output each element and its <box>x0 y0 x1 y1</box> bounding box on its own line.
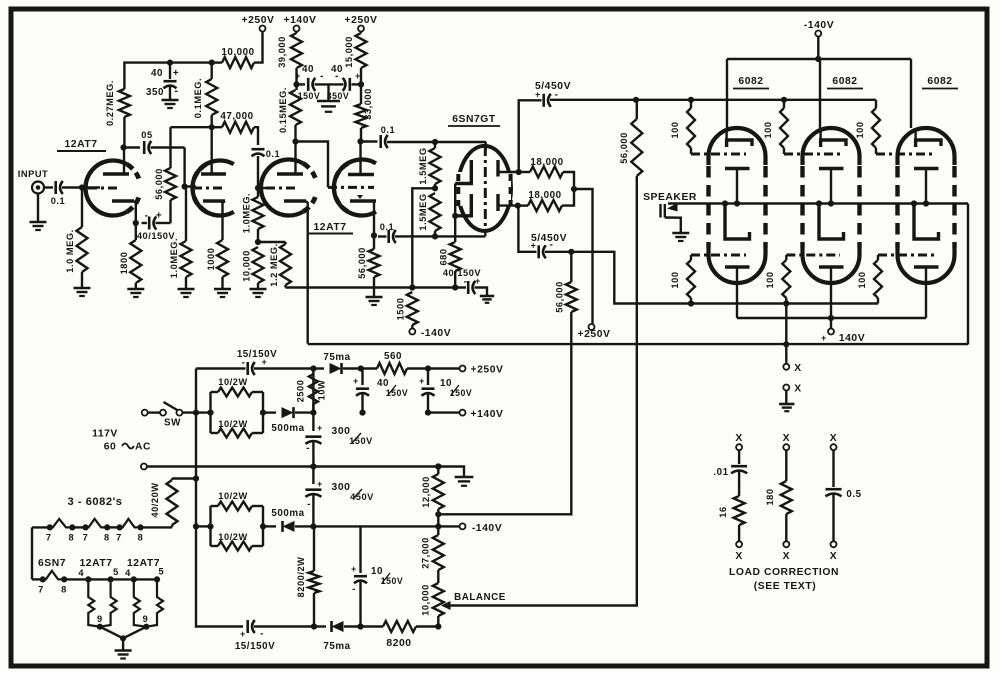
resistor 56,000 plate-cathode V1 <box>165 168 176 200</box>
resistor 10/2W upper no.1 <box>211 391 219 393</box>
capacitor 0.1 coupling V2b plate to driver <box>361 140 378 142</box>
resistor 0.1MEG plate load V1b <box>210 63 212 79</box>
svg-text:16: 16 <box>718 506 728 517</box>
svg-text:12AT7: 12AT7 <box>64 139 97 150</box>
upper plate 6082 no.1 <box>727 140 752 147</box>
svg-text:+: + <box>156 211 162 222</box>
resistor 8200/2W <box>313 526 315 571</box>
svg-text:-: - <box>174 85 178 97</box>
lower cathode bar 6082 no.1 <box>725 265 750 269</box>
plate lead V1a <box>123 148 125 175</box>
terminal +250V no.1 <box>260 26 266 32</box>
svg-text:9: 9 <box>143 614 149 624</box>
svg-text:10/2W: 10/2W <box>218 491 247 501</box>
cathode bar 6SN7 lower <box>455 194 471 216</box>
svg-text:75ma: 75ma <box>323 641 350 652</box>
svg-text:10/2W: 10/2W <box>218 377 247 387</box>
svg-text:1.0MEG.: 1.0MEG. <box>242 193 252 233</box>
svg-text:3 - 6082's: 3 - 6082's <box>67 496 122 508</box>
wire to 40/20W <box>172 477 196 479</box>
resistor 680 cathode bias <box>450 242 461 271</box>
svg-text:10,000: 10,000 <box>242 250 252 282</box>
capacitor 5/450V lower coupling <box>518 206 537 252</box>
wire cap to ground <box>169 86 171 100</box>
wire cap to AC neutral <box>312 440 314 467</box>
resistor 10/2W lower no.1 <box>211 432 219 434</box>
svg-text:+: + <box>240 629 246 639</box>
upper plate lead 6082 no.1 <box>725 128 727 140</box>
svg-text:(SEE TEXT): (SEE TEXT) <box>754 581 816 592</box>
cathode lead V2b <box>373 201 375 236</box>
wire to -140V PSU terminal <box>438 525 459 527</box>
node top row left <box>310 365 316 371</box>
upper plate 6082 no.3 <box>916 140 941 147</box>
-140V plate rail <box>727 58 911 60</box>
wire jack to C 0.1 <box>44 186 53 188</box>
plate lead 6SN7 lower <box>498 204 518 206</box>
svg-text:75ma: 75ma <box>323 352 350 363</box>
triode V1b 12AT7 envelope <box>193 161 234 216</box>
6082 output tube no.3 envelope <box>898 128 955 283</box>
svg-text:8: 8 <box>138 533 144 543</box>
cathode bar 6SN7 upper <box>455 160 471 184</box>
node -140V entry <box>815 56 821 62</box>
svg-text:8: 8 <box>61 585 67 595</box>
svg-text:X: X <box>735 433 742 444</box>
node bridge 1 out <box>260 410 266 416</box>
AC vertical wire <box>195 413 197 527</box>
wire cap to R 56,000 bottom <box>156 222 171 224</box>
wire R 56,000 to ground <box>373 277 375 297</box>
svg-text:2500: 2500 <box>296 380 306 403</box>
cathode bar V1b <box>203 199 225 203</box>
balance arrow into pot <box>441 601 451 610</box>
wire plate lead no.3 <box>910 59 912 128</box>
cathode lead V2a down to feedback line <box>306 201 308 344</box>
wire 56,000 bottom down to divider line <box>438 312 571 514</box>
svg-text:10,000: 10,000 <box>221 47 254 58</box>
resistor 10,000 B+ dropping <box>212 61 222 63</box>
wire plate lead no.1 <box>726 59 728 128</box>
+140V cathode rail <box>737 317 926 319</box>
upper cathode lead 6082 no.3 <box>925 169 927 204</box>
ground R 1000 <box>214 288 231 291</box>
lower grid dash line no.2 <box>786 254 840 257</box>
triode V1a 12AT7 envelope <box>86 161 127 216</box>
resistor 1.0MEG grid V2a <box>257 188 259 197</box>
capacitor 0.1 coupling to V2a <box>252 148 265 151</box>
svg-text:56,000: 56,000 <box>357 247 367 279</box>
cathode lead V1a <box>134 201 136 223</box>
svg-text:0.27MEG.: 0.27MEG. <box>105 80 115 126</box>
svg-text:8200: 8200 <box>386 638 411 649</box>
terminal X lower <box>783 385 789 391</box>
svg-text:X: X <box>735 551 742 562</box>
svg-text:100: 100 <box>855 121 865 138</box>
node 40/20W tap <box>193 475 199 481</box>
node doubler mid 1 <box>310 410 316 416</box>
wire X to ground <box>785 391 787 405</box>
svg-text:300: 300 <box>332 482 351 493</box>
svg-text:350V: 350V <box>327 91 350 101</box>
plate lead 6SN7 upper <box>498 171 519 173</box>
capacitor 0.1 coupling cathode V2b to driver bottom <box>378 235 387 237</box>
ground R 10,000 <box>250 288 267 291</box>
capacitor .05 coupling V1a-V1b <box>143 141 146 154</box>
capacitor 5/450V upper coupling <box>519 100 542 172</box>
svg-text:-: - <box>145 211 149 222</box>
node pot bottom <box>435 623 441 629</box>
upper cathode bar 6082 no.2 <box>819 167 844 171</box>
grid dash line V1b <box>193 187 226 190</box>
wire cap to +140 row <box>361 394 363 413</box>
speaker jack symbol <box>659 204 661 218</box>
svg-text:+250V: +250V <box>345 15 378 26</box>
heater row 2 <box>32 578 43 580</box>
wire lower 100 rail to X link <box>785 304 787 345</box>
svg-text:-: - <box>352 584 356 595</box>
node +140V PSU <box>425 410 431 416</box>
svg-text:6SN7GT: 6SN7GT <box>452 114 496 125</box>
lower plate 6082 no.3 <box>914 204 939 240</box>
wire R 1.2MEG to bias rail <box>284 285 286 288</box>
node +250V PSU <box>425 365 431 371</box>
wire 15,000 to +250V terminal no.2 <box>360 32 362 34</box>
lower cathode bar 6082 no.3 <box>914 265 939 269</box>
AC input terminal line 1 <box>142 410 148 416</box>
terminal X bottom col 2 <box>783 541 789 547</box>
cathode bar V2b <box>350 199 376 203</box>
svg-text:40/20W: 40/20W <box>150 482 160 517</box>
node speaker rail no.2b <box>828 200 834 206</box>
resistor 2500 10W <box>312 374 314 413</box>
svg-text:60: 60 <box>104 442 117 453</box>
wire heater row 1 to row 2 <box>31 527 33 579</box>
wire ground hook <box>438 467 464 478</box>
node plate upper <box>516 169 522 175</box>
terminal +140V <box>294 26 300 32</box>
wire to ground <box>185 277 187 289</box>
node cathode join <box>452 213 458 219</box>
cathode arrow mark V2b <box>357 195 363 199</box>
capacitor 300/450V doubler <box>312 467 314 485</box>
svg-text:+250V: +250V <box>578 329 611 340</box>
wire to X bottom <box>738 525 740 541</box>
svg-text:450V: 450V <box>350 492 374 502</box>
resistor 0.15MEG plate load V2a <box>294 125 296 142</box>
svg-text:15/150V: 15/150V <box>235 641 275 652</box>
wire cap pair center <box>315 83 344 85</box>
plate bar V1b <box>201 172 226 176</box>
svg-text:0.1: 0.1 <box>381 125 396 135</box>
wire divider node to R 1.2MEG <box>258 241 286 243</box>
resistor 100 upper grid no.2 <box>781 97 787 103</box>
wire grid top entry <box>485 142 487 150</box>
divider line from 56,000 <box>435 511 441 517</box>
node 1.5MEG bottom <box>432 233 438 239</box>
ground speaker <box>672 232 689 235</box>
node grid V2a <box>255 185 261 191</box>
node bias rail to 1500 <box>409 284 415 290</box>
node feedback X link <box>783 341 789 347</box>
upper grid dash line no.2 <box>783 148 785 154</box>
svg-text:-140V: -140V <box>421 328 451 339</box>
lower plate 6082 no.2 <box>819 204 844 240</box>
svg-text:+: + <box>262 357 268 367</box>
svg-text:10/2W: 10/2W <box>218 419 247 429</box>
wire 39,000 to +140V terminal <box>295 32 297 34</box>
capacitor 40/150V PSU filter <box>361 369 363 386</box>
svg-text:12,000: 12,000 <box>421 476 431 508</box>
svg-text:27,000: 27,000 <box>421 537 431 569</box>
node grid V1b <box>182 183 188 189</box>
upper grid dash line no.3 <box>875 148 877 154</box>
resistor 1.5MEG upper <box>430 148 441 184</box>
wire R 10,000 to +250V terminal <box>254 32 263 63</box>
wire 1.5MEG mid node to bias rail <box>412 188 435 287</box>
node cathode V1a <box>133 220 139 226</box>
svg-text:-: - <box>242 358 246 369</box>
upper cathode bar 6082 no.3 <box>914 167 939 171</box>
svg-text:AC: AC <box>135 442 151 453</box>
switch lever <box>164 402 179 411</box>
wire plate lead V1b <box>210 127 212 174</box>
svg-text:680: 680 <box>439 248 449 265</box>
svg-text:12AT7: 12AT7 <box>79 558 112 569</box>
node +250V feed <box>571 186 577 192</box>
wire plate lead no.2 <box>819 59 821 128</box>
resistor 56,000 cathode V2b <box>373 236 375 250</box>
svg-text:4: 4 <box>78 568 84 578</box>
node cathode follower output <box>371 232 377 238</box>
node speaker rail no.1b <box>734 200 740 206</box>
node lower drive <box>568 249 574 255</box>
svg-text:-: - <box>550 240 554 251</box>
resistor 56,000 lower drive <box>570 252 572 282</box>
node grid V1a <box>79 184 85 190</box>
node -140V feed <box>310 523 316 529</box>
wire R 1800 to ground <box>135 283 137 289</box>
wire cathode node to R 1800 <box>135 223 137 240</box>
plate bar V2a <box>277 172 303 176</box>
svg-text:+: + <box>531 241 537 251</box>
terminal X upper <box>785 344 787 364</box>
node 680 bottom on bias rail <box>452 284 458 290</box>
svg-text:+140V: +140V <box>471 409 504 420</box>
grid dash line 6SN7 center <box>484 146 487 230</box>
capacitor 0.5 load correction <box>832 450 834 487</box>
AC sine symbol <box>122 444 134 449</box>
svg-text:-: - <box>307 499 311 510</box>
svg-text:100: 100 <box>857 271 867 288</box>
svg-text:9: 9 <box>97 614 103 624</box>
resistor 1.5MEG lower <box>430 193 441 231</box>
node plate V2b <box>357 138 363 144</box>
upper cathode lead 6082 no.1 <box>736 169 738 204</box>
ground bias bypass <box>480 295 494 298</box>
6SN7GT envelope <box>458 146 511 231</box>
svg-text:300: 300 <box>332 426 351 437</box>
svg-text:0.1MEG.: 0.1MEG. <box>193 78 203 118</box>
node plate V1a <box>120 144 126 150</box>
node decoupling cap 40/350V <box>167 60 173 66</box>
node ground jumper top <box>435 463 441 469</box>
svg-text:560: 560 <box>384 351 402 362</box>
wire C .05 to grid V1b <box>151 146 185 148</box>
grid dash line V2a <box>266 187 297 190</box>
upper plate 6082 no.2 <box>821 140 846 147</box>
svg-text:10,000: 10,000 <box>421 584 431 616</box>
speaker arrow <box>667 203 678 212</box>
wire C 0.1 to 6SN7 grid top <box>387 141 486 143</box>
resistor 10/2W upper no.2 <box>211 505 219 507</box>
wire top row corner <box>195 369 197 413</box>
wire plate node to C .05 <box>124 146 141 148</box>
svg-text:+: + <box>475 276 481 286</box>
svg-text:+: + <box>317 423 323 433</box>
plate bar 6SN7 lower <box>496 194 499 211</box>
wire -140V terminal <box>817 37 819 60</box>
svg-text:1000: 1000 <box>206 248 216 271</box>
upper plate lead 6082 no.2 <box>819 128 821 140</box>
lower cathode lead 6082 no.2 <box>830 267 832 318</box>
resistor 10,000 divider to ground <box>253 247 264 283</box>
top row +250 feed <box>196 367 246 369</box>
bias rail horizontal <box>286 286 467 288</box>
upper cathode bar 6082 no.1 <box>725 167 750 171</box>
resistor 10/2W lower no.2 <box>211 545 219 547</box>
plate lead V2b <box>359 142 361 175</box>
node AC vertical <box>193 410 199 416</box>
node speaker rail no.3a <box>911 200 917 206</box>
resistor 18,000 upper plate load <box>519 171 530 173</box>
wire SW to bridge 1 <box>182 411 210 413</box>
wire input jack to ground <box>37 194 39 223</box>
lower cathode lead 6082 no.1 <box>736 267 738 318</box>
wire speaker jack to ground <box>665 218 681 234</box>
svg-text:40: 40 <box>151 68 163 79</box>
svg-text:8: 8 <box>104 533 110 543</box>
svg-text:1.0MEG.: 1.0MEG. <box>169 238 179 278</box>
svg-text:+140V: +140V <box>284 15 317 26</box>
feedback line bottom <box>308 343 968 345</box>
svg-text:40: 40 <box>302 64 314 75</box>
svg-text:-140V: -140V <box>472 523 502 534</box>
svg-text:56,000: 56,000 <box>555 281 565 313</box>
svg-text:18,000: 18,000 <box>528 190 561 201</box>
svg-text:.01: .01 <box>713 467 728 478</box>
resistor 15,000 from +250V <box>356 33 367 68</box>
svg-text:+: + <box>173 68 179 79</box>
svg-text:5: 5 <box>113 567 119 577</box>
svg-text:7: 7 <box>116 533 122 543</box>
svg-text:12AT7: 12AT7 <box>127 558 160 569</box>
lower grid dash line no.1 <box>691 254 746 257</box>
resistor 1500 to -140V <box>407 292 418 325</box>
wire grid node down to R 1.0MEG <box>81 188 83 228</box>
wire 0.27MEG top to B+ rail <box>124 63 211 89</box>
wire divider node down <box>437 514 439 526</box>
svg-text:8200/2W: 8200/2W <box>296 557 306 598</box>
svg-text:500ma: 500ma <box>271 423 304 434</box>
capacitor 300/150V doubler <box>312 413 314 431</box>
wire 5/450V lower to node <box>545 251 571 253</box>
resistor 1.0 MEG grid return V1a <box>77 227 88 272</box>
node plate V1b <box>209 124 215 130</box>
svg-text:10/2W: 10/2W <box>218 532 247 542</box>
svg-text:6082: 6082 <box>738 76 763 87</box>
resistor 1000 cathode V1b <box>217 240 228 277</box>
triode V2b 12AT7 envelope <box>334 160 376 216</box>
lower cathode lead 6082 no.3 <box>925 267 927 318</box>
svg-text:100: 100 <box>670 271 680 288</box>
capacitor 40/350V decoupling pair right <box>348 78 351 91</box>
node bridge 2 out <box>260 523 266 529</box>
lower grid dash line no.3 <box>878 254 935 257</box>
wire 40/20W to heater string <box>171 525 173 527</box>
svg-text:47,000: 47,000 <box>220 111 253 122</box>
svg-text:+: + <box>821 333 827 343</box>
svg-text:+: + <box>535 90 541 100</box>
diode 75ma no.1 <box>313 367 324 369</box>
svg-text:+: + <box>351 564 357 574</box>
resistor 180 load correction <box>785 450 787 481</box>
resistor 560 <box>361 367 377 369</box>
bridge rectifier 2 10/2W pair <box>193 523 199 529</box>
svg-text:10W: 10W <box>317 380 327 401</box>
upper cathode lead 6082 no.2 <box>830 169 832 204</box>
svg-text:-: - <box>306 443 310 454</box>
node divider V2a <box>255 239 261 245</box>
heater center tap wires <box>100 627 123 639</box>
bottom PSU row <box>196 526 243 626</box>
svg-text:-: - <box>260 629 264 640</box>
wire R 1000 to ground <box>221 277 223 289</box>
svg-text:X: X <box>794 384 801 395</box>
svg-text:117V: 117V <box>92 429 118 440</box>
node plate V2a <box>292 138 298 144</box>
svg-text:0.5: 0.5 <box>846 489 861 500</box>
svg-text:1800: 1800 <box>119 252 129 275</box>
wire C 0.1 to grid node V2a <box>257 156 259 188</box>
svg-text:SPEAKER: SPEAKER <box>643 192 697 203</box>
wire up into 6SN7 grid line bottom <box>484 230 486 236</box>
wire 18,000 upper to +250V node <box>563 172 574 189</box>
svg-text:-: - <box>464 277 468 288</box>
svg-text:100: 100 <box>765 271 775 288</box>
wire grid node into tube V1b <box>185 185 196 187</box>
svg-text:-: - <box>335 71 339 82</box>
svg-text:SW: SW <box>164 418 181 429</box>
terminal +250V right <box>589 324 595 330</box>
svg-text:BALANCE: BALANCE <box>454 592 506 603</box>
svg-text:+250V: +250V <box>242 15 275 26</box>
node plate lower <box>515 203 521 209</box>
output grid rail upper <box>636 99 876 101</box>
svg-text:1.5MEG: 1.5MEG <box>418 147 428 184</box>
wire 18,000 lower to +250V node <box>562 189 574 206</box>
capacitor 15/150V bottom <box>246 620 249 633</box>
grid dash line V2b <box>328 186 374 189</box>
resistor 12,000 divider <box>437 467 439 475</box>
ground decoupling caps <box>327 84 329 101</box>
ground PSU <box>455 476 474 479</box>
cross-couple wire plate V2a to grid V2b <box>296 142 329 188</box>
wire +250V node down to terminal <box>574 189 593 324</box>
plate bar V1a <box>103 172 129 176</box>
svg-text:7: 7 <box>83 533 89 543</box>
capacitor 40/150V cathode bypass V1a <box>142 222 148 224</box>
